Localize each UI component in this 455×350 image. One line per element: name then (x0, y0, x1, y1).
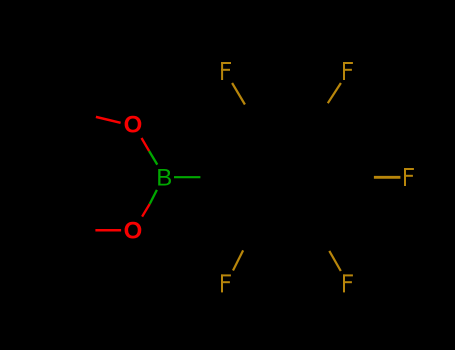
atom F2 (fluorine top-right) (343, 62, 353, 80)
svg-text:O: O (124, 111, 143, 138)
bond O1-B (green half) (149, 151, 157, 165)
bond F2-C ring (olive half, top right) (328, 83, 341, 103)
svg-text:B: B (156, 165, 172, 192)
bond C-O1 (red half, upper left diagonal) (96, 117, 121, 123)
bond F5-C ring (olive half, bottom right) (329, 251, 341, 271)
bond F3-C ring (olive half, right horizontal) (374, 176, 401, 179)
atom F1 (fluorine top-left) (221, 62, 231, 80)
bond O2-B (red half) (142, 204, 150, 217)
bond O2-B (green half) (150, 190, 157, 204)
svg-text:O: O (124, 217, 143, 244)
bond C-O2 (red half, lower left horizontal) (95, 229, 121, 232)
bond O1-B (red half) (142, 138, 150, 151)
atom F3 (fluorine right) (404, 168, 414, 186)
atom F5 (fluorine bottom-right) (343, 274, 353, 292)
bond F1-C ring (olive half, top left) (232, 83, 245, 105)
bond F4-C ring (olive half, bottom left) (233, 250, 243, 270)
atom F4 (fluorine bottom-left) (221, 274, 231, 292)
bond B-C1 ring (green half) (174, 176, 200, 178)
